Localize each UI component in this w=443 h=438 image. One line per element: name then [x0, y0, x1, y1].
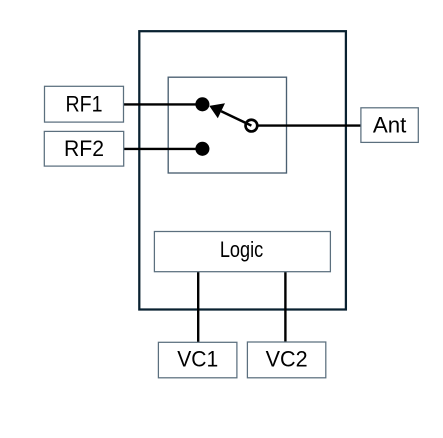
svg-text:VC1: VC1: [177, 347, 218, 372]
svg-text:RF2: RF2: [64, 136, 104, 161]
svg-text:Logic: Logic: [220, 237, 263, 262]
svg-text:RF1: RF1: [66, 92, 103, 117]
svg-text:Ant: Ant: [373, 112, 407, 137]
svg-text:VC2: VC2: [266, 347, 308, 372]
